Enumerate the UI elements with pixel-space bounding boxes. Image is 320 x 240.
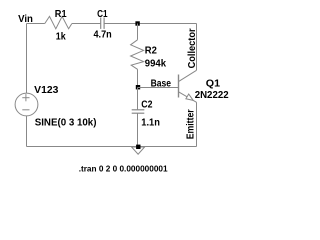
wire bottom rail: [27, 146, 197, 148]
svg-text:Vin: Vin: [18, 14, 33, 25]
svg-text:.tran 0 2 0 0.000000001: .tran 0 2 0 0.000000001: [79, 164, 168, 174]
V123 plus sign: [22, 94, 29, 101]
svg-text:1.1n: 1.1n: [141, 117, 160, 128]
svg-text:SINE(0 3 10k): SINE(0 3 10k): [35, 118, 97, 129]
ground symbol: [132, 147, 145, 154]
svg-text:Collector: Collector: [187, 28, 198, 68]
svg-text:V123: V123: [34, 85, 59, 96]
svg-text:4.7n: 4.7n: [94, 30, 112, 41]
svg-text:Base: Base: [151, 79, 172, 90]
svg-text:1k: 1k: [56, 31, 66, 42]
svg-text:2N2222: 2N2222: [195, 90, 229, 101]
node junction ground: [136, 145, 140, 149]
wire base: [138, 87, 179, 89]
transistor Q1 emitter arrow: [186, 94, 193, 100]
voltage source V123 circle: [15, 93, 38, 116]
wire C2 to ground rail: [137, 113, 139, 146]
wire C1 to collector corner: [104, 23, 196, 25]
capacitor C2: [132, 110, 145, 113]
svg-text:C2: C2: [141, 99, 153, 110]
wire V123 bottom: [26, 116, 28, 147]
capacitor C1: [101, 18, 104, 29]
svg-text:Q1: Q1: [206, 79, 221, 90]
wire junction to R2 top: [137, 24, 139, 40]
node junction base: [136, 85, 140, 89]
svg-text:R2: R2: [145, 45, 158, 56]
resistor R1: [45, 16, 72, 28]
svg-text:C1: C1: [97, 9, 108, 20]
svg-text:Emitter: Emitter: [185, 109, 196, 139]
node junction top (R2 tap): [135, 21, 139, 25]
wire R2 to base node: [137, 69, 139, 87]
wire emitter vertical: [196, 102, 198, 146]
wire R1 to C1: [72, 23, 101, 25]
resistor R2: [131, 40, 144, 70]
svg-text:R1: R1: [55, 9, 67, 20]
wire base node to C2: [137, 88, 139, 110]
wire collector vertical: [196, 24, 198, 71]
transistor Q1 emitter diagonal: [179, 92, 197, 103]
transistor Q1 collector diagonal: [179, 70, 197, 81]
svg-text:994k: 994k: [145, 58, 167, 69]
wire Vin vertical to V123: [26, 24, 28, 94]
wire top rail Vin to R1: [27, 23, 45, 25]
transistor Q1 bar: [178, 75, 180, 98]
V123 minus sign: [22, 109, 29, 111]
